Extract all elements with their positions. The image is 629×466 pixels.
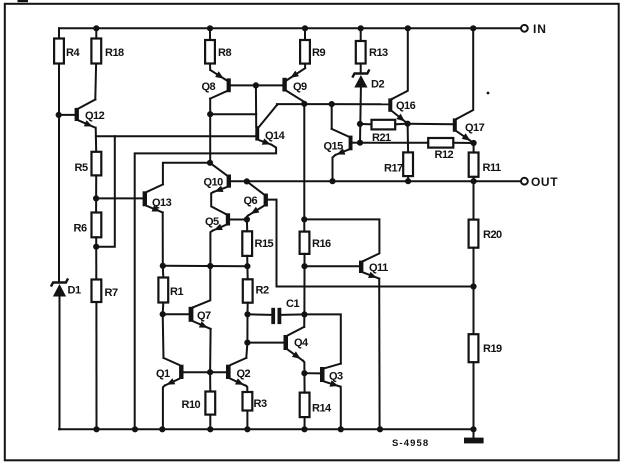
resistor R19: [469, 334, 502, 362]
junction Q17 collector top: [470, 25, 476, 31]
svg-text:Q10: Q10: [204, 177, 224, 189]
svg-text:Q7: Q7: [197, 310, 211, 322]
junction line B at ground bus: [132, 426, 138, 432]
wire Q17 emitter to R11: [473, 143, 475, 153]
wire R16 node down to C1: [303, 266, 305, 314]
svg-text:R9: R9: [312, 47, 325, 59]
wire Q8 collector down: [209, 99, 211, 163]
svg-text:Q13: Q13: [152, 197, 172, 209]
wire Q16 base line: [332, 103, 389, 105]
wire top supply bus: [59, 27, 521, 29]
svg-text:R11: R11: [483, 162, 501, 174]
wire Q4 base line: [247, 342, 283, 344]
wire R13 top stub: [360, 28, 362, 41]
wire divider tap up-link: [96, 136, 115, 247]
svg-text:R17: R17: [384, 163, 403, 175]
junction R13 top: [358, 25, 364, 31]
resistor R9: [300, 40, 325, 64]
svg-text:S-4958: S-4958: [392, 438, 429, 449]
wire R15 to node: [246, 256, 248, 266]
junction Q11 base node: [301, 263, 307, 269]
svg-text:IN: IN: [533, 22, 547, 36]
svg-text:R7: R7: [105, 287, 118, 299]
resistor R2: [243, 279, 269, 302]
wire Q12 emitter to R5: [95, 128, 98, 152]
wire Q2 collector up: [246, 343, 247, 358]
resistor R1: [158, 278, 183, 303]
junction Q4 base node: [244, 340, 250, 346]
transistor Q7: [189, 307, 211, 329]
wire R13 to D2: [360, 64, 362, 74]
svg-text:R16: R16: [312, 238, 331, 250]
wire Q11 collector link: [304, 219, 379, 261]
wire R8 top stub: [209, 28, 211, 40]
wire Q2 emitter to R3: [246, 386, 247, 392]
wire Q1 collector up: [162, 314, 165, 358]
transistor Q11: [359, 261, 388, 279]
svg-text:Q8: Q8: [202, 81, 216, 93]
wire Q8-Q9 base tie: [231, 84, 283, 86]
junction rail-Q10 node: [207, 160, 213, 166]
wire R1 top lead: [162, 266, 165, 278]
wire Q17 collector: [457, 28, 473, 119]
resistor R7: [92, 280, 118, 303]
junction R11 at OUT: [471, 178, 477, 184]
junction Q17 emitter node: [471, 140, 477, 146]
wire R6 to R7: [95, 237, 97, 279]
wire Q16 collector: [392, 28, 408, 99]
wire Q7 emitter down: [209, 329, 212, 372]
resistor R6: [74, 213, 102, 238]
junction Q9 collector node: [301, 101, 307, 107]
transistor Q1: [156, 358, 184, 386]
junction Q8 collector: [207, 111, 213, 117]
wire bottom ground bus: [59, 428, 474, 430]
junction R16 top tap: [301, 216, 307, 222]
transistor Q10: [204, 163, 232, 192]
capacitor C1: [271, 298, 299, 324]
junction Q16 collector top: [405, 25, 411, 31]
resistor R13: [356, 41, 388, 64]
svg-text:R5: R5: [75, 162, 88, 174]
resistor R20: [469, 220, 502, 248]
wire R19 to ground bus: [473, 362, 475, 429]
wire Q7 base: [163, 313, 189, 315]
svg-text:Q2: Q2: [237, 368, 251, 380]
junction Q6 collector at OUT: [244, 178, 250, 184]
transistor Q13: [143, 184, 172, 212]
transistor Q9: [282, 68, 307, 101]
junction R7 at ground bus: [93, 426, 99, 432]
wire Q5 base: [230, 219, 247, 221]
wire R5 to R6: [95, 175, 97, 212]
junction base tie / R10 top: [207, 369, 213, 375]
svg-text:R15: R15: [255, 238, 274, 250]
wire R9 to Q9 emitter: [304, 64, 306, 68]
transistor Q8: [202, 70, 231, 98]
wire Q11 base: [305, 265, 360, 267]
wire R9 top stub: [304, 28, 306, 40]
junction Q16 emitter node: [405, 121, 411, 127]
wire Q11 emitter to ground: [378, 279, 380, 430]
wire Q15 base: [353, 142, 361, 144]
resistor R17: [384, 152, 413, 176]
svg-text:R8: R8: [218, 47, 231, 59]
resistor R12: [428, 138, 453, 161]
svg-text:Q14: Q14: [265, 130, 286, 142]
wire C1 right lead: [281, 313, 304, 316]
svg-text:R6: R6: [74, 223, 87, 235]
wire Q15 collector up: [331, 104, 333, 129]
terminal IN: [521, 22, 547, 36]
wire Q7 collector up: [193, 266, 210, 307]
junction R10 at bus: [207, 426, 213, 432]
svg-text:R19: R19: [483, 343, 502, 355]
svg-text:R4: R4: [66, 47, 80, 59]
wire Q6 base link: [268, 200, 474, 287]
wire Q14 base line: [96, 135, 255, 137]
wire R10 bottom lead: [209, 415, 211, 430]
resistor R18: [91, 39, 124, 64]
wire Q12 base: [59, 114, 75, 116]
terminal OUT: [521, 175, 558, 189]
wire Q13 base from R5-R6 node: [96, 197, 143, 199]
wire Q4 collector up: [303, 314, 305, 326]
zener diode D2: [353, 71, 385, 91]
wire R16 bottom lead: [304, 254, 306, 266]
cropped text remnant top-left: [18, 0, 29, 2]
wire R2 bottom lead: [247, 303, 249, 315]
wire D2 to R21 node: [359, 88, 362, 143]
junction R8 top: [207, 25, 213, 31]
wire output bus: [231, 180, 521, 182]
svg-text:Q1: Q1: [156, 368, 170, 380]
junction R6-R7 divider tap: [93, 244, 99, 250]
wire Q3 emitter to bus: [340, 387, 342, 430]
wire Q14 emitter path (line B): [135, 145, 276, 430]
wire R14 bottom lead: [304, 417, 306, 429]
ground symbol: [464, 429, 484, 443]
resistor R21: [372, 120, 396, 144]
zener diode D1: [52, 280, 81, 297]
wire R1 bottom lead: [162, 303, 165, 315]
svg-text:Q17: Q17: [465, 122, 485, 134]
resistor R8: [205, 40, 231, 64]
svg-text:Q9: Q9: [293, 81, 307, 93]
scan speck: [487, 92, 490, 95]
wire Q15 emitter to OUT bus: [333, 155, 336, 181]
transistor Q3: [320, 364, 343, 387]
wire Q10 emitter to Q5 collector: [211, 192, 226, 214]
wire base tie to Q8 collector: [210, 113, 256, 115]
wire R20 to R19: [473, 248, 475, 335]
svg-text:R20: R20: [483, 229, 502, 241]
svg-text:Q4: Q4: [294, 337, 309, 349]
junction R20-R19 divider tap: [470, 283, 476, 289]
junction Q15 base node: [357, 140, 363, 146]
resistor R10: [182, 392, 216, 415]
junction Q1 emitter at bus: [159, 426, 165, 432]
svg-text:R14: R14: [312, 403, 332, 415]
junction Q5 base / R15 top: [244, 216, 250, 222]
wire Q13 emitter to R1 node: [162, 212, 164, 265]
junction Q15 emitter at OUT: [329, 178, 335, 184]
junction ground node: [470, 426, 476, 432]
resistor R14: [300, 393, 332, 418]
junction Q11 emitter at bus: [377, 426, 383, 432]
transistor Q2: [226, 358, 251, 386]
wire Q5 emitter down: [210, 231, 212, 266]
resistor R16: [300, 232, 331, 254]
junction Q15 collector tap: [329, 101, 335, 107]
transistor Q15: [324, 129, 353, 155]
wire OUT to R20: [473, 181, 475, 219]
wire Q6 emitter to R15 node: [247, 215, 248, 219]
junction R15-R2 node: [244, 263, 250, 269]
wire R2-C1-Q4 vertical: [246, 314, 248, 342]
wire Q16 emitter to R17: [407, 124, 410, 153]
junction Q3 emitter at bus: [338, 426, 344, 432]
wire R18 to Q12 collector: [94, 64, 97, 100]
svg-text:Q12: Q12: [85, 110, 105, 122]
wire Q9 collector rail down: [303, 104, 305, 232]
wire R15 top lead: [246, 220, 248, 232]
junction R14 at bus: [301, 426, 307, 432]
wire R21 left lead: [360, 123, 372, 125]
transistor Q14: [255, 105, 285, 145]
resistor R5: [75, 152, 102, 176]
junction R18 top: [93, 25, 99, 31]
wire R12 right lead: [453, 142, 473, 144]
wire R2 top lead: [246, 266, 248, 279]
wire R21 right lead: [395, 123, 407, 126]
svg-text:D1: D1: [68, 285, 81, 297]
transistor Q12: [75, 100, 105, 128]
svg-text:R12: R12: [435, 149, 454, 161]
wire base tie to Q14: [255, 85, 257, 126]
wire R3 bottom lead: [246, 411, 248, 430]
svg-text:OUT: OUT: [531, 175, 558, 189]
svg-text:Q5: Q5: [205, 216, 219, 228]
wire R14 top lead: [303, 373, 305, 392]
resistor R11: [469, 153, 501, 177]
transistor Q4: [284, 327, 310, 361]
wire Q1 emitter to bus: [163, 386, 165, 430]
junction Q7 collector node: [207, 263, 213, 269]
svg-text:Q11: Q11: [369, 262, 388, 274]
resistor R4: [54, 39, 80, 64]
svg-text:R10: R10: [182, 399, 201, 411]
svg-text:Q15: Q15: [324, 141, 344, 153]
wire R18 top stub: [95, 28, 97, 38]
junction R5-R6 node: [93, 195, 99, 201]
wire left rail D1 to ground bus: [59, 297, 61, 430]
junction base tie tap: [253, 82, 259, 88]
resistor R3: [243, 392, 267, 411]
wire Q17 base line: [408, 123, 453, 126]
transistor Q5: [205, 213, 230, 230]
wire left rail R4 to D1: [58, 64, 60, 283]
wire C1 left lead: [248, 313, 272, 316]
junction R1 top: [160, 263, 166, 269]
svg-text:R1: R1: [170, 286, 183, 298]
svg-text:D2: D2: [371, 79, 384, 91]
junction Q3 base node: [301, 370, 307, 376]
svg-text:R18: R18: [105, 47, 124, 59]
junction Q12 base on left rail: [56, 112, 62, 118]
svg-text:R13: R13: [369, 47, 388, 59]
svg-text:Q16: Q16: [396, 100, 416, 112]
wire R7 to ground bus: [95, 302, 97, 429]
wire Q13 collector link: [163, 163, 210, 185]
wire Q3 base: [304, 372, 320, 374]
svg-text:Q6: Q6: [244, 195, 258, 207]
wire R8 to Q8 emitter: [209, 64, 211, 71]
wire R10 top lead: [209, 372, 211, 391]
svg-text:Q3: Q3: [329, 371, 343, 383]
junction R9 top: [302, 25, 308, 31]
svg-text:R3: R3: [254, 398, 267, 410]
wire R17 to OUT bus: [407, 176, 409, 181]
wire Q3 collector link: [304, 314, 340, 363]
junction C1 right: [301, 311, 307, 317]
wire R12 left line from Q15 base: [360, 142, 428, 144]
wire Q14 collector to mirror line: [277, 103, 332, 106]
wire R11 to OUT bus: [473, 177, 475, 181]
transistor Q16: [388, 98, 415, 123]
junction R21 left node: [357, 121, 363, 127]
junction C1 left: [244, 311, 250, 317]
wire Q1-Q2 base tie: [184, 371, 227, 373]
svg-text:R2: R2: [256, 285, 269, 297]
resistor R15: [242, 231, 273, 256]
junction R3 at bus: [244, 426, 250, 432]
wire Q4 emitter down: [303, 361, 304, 374]
junction R17 at OUT: [405, 178, 411, 184]
junction Q7 base / R1 bottom: [160, 311, 166, 317]
transistor Q17: [453, 118, 485, 142]
wire left rail upper (R4 branch): [58, 28, 60, 38]
svg-text:C1: C1: [286, 298, 299, 310]
transistor Q6: [244, 181, 268, 215]
wire amplifier tail node line: [163, 265, 248, 267]
label S-4958: [392, 438, 429, 449]
